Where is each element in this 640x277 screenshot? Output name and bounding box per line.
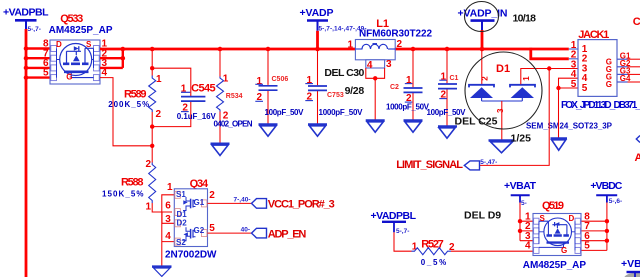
- resistor R527: [412, 239, 456, 267]
- wire JACK pin4 to ground: [559, 78, 579, 138]
- junction dots at x=122.8: [121, 47, 126, 52]
- power symbol +VADP_IN: [458, 7, 508, 30]
- svg-text:S: S: [86, 40, 92, 49]
- power symbol +VBAT: [504, 180, 537, 207]
- wire gate net down to R588: [151, 127, 153, 163]
- svg-text:Q533: Q533: [60, 13, 83, 25]
- wire G1: [617, 58, 628, 60]
- wire D1 anode to ground: [501, 101, 503, 140]
- D1 left half cathode wire to bus: [481, 49, 483, 84]
- JACK1 outside pin numbers: [571, 40, 577, 90]
- svg-text:R589: R589: [124, 88, 147, 100]
- partial off-page arrow at right edge: [636, 136, 640, 143]
- svg-text:10/18: 10/18: [513, 13, 537, 25]
- svg-text:100pF_50V: 100pF_50V: [265, 108, 305, 117]
- svg-text:A: A: [635, 152, 640, 164]
- annotation circle around D1: [465, 52, 542, 129]
- D1 left diode: [469, 85, 494, 88]
- power symbol +VBDC: [590, 180, 622, 205]
- power symbol +VADPBL: [3, 6, 49, 33]
- svg-text:1: 1: [306, 75, 312, 86]
- svg-text:5: 5: [43, 68, 49, 79]
- svg-text:1: 1: [406, 75, 412, 86]
- transistor Q34 2N7002DW: [165, 178, 217, 261]
- D1 anode join: [482, 98, 523, 101]
- svg-text:4: 4: [102, 68, 108, 79]
- wire rail to C545 top: [152, 68, 191, 96]
- svg-text:R534: R534: [226, 93, 243, 100]
- wire L1 pins 3,4 to ground: [366, 68, 385, 120]
- svg-text:2: 2: [156, 109, 162, 120]
- junction dots on +VADPBL bus: [24, 46, 29, 80]
- svg-text:150K_5%: 150K_5%: [102, 190, 144, 199]
- svg-text:R588: R588: [121, 177, 144, 189]
- svg-text:S1: S1: [176, 190, 186, 199]
- svg-text:D1: D1: [496, 63, 510, 75]
- wire R589 bottom / C545 bottom join: [152, 101, 191, 126]
- wire +VADPBL vertical bus: [25, 29, 28, 277]
- svg-text:C: C: [633, 16, 640, 28]
- svg-text:Q34: Q34: [190, 178, 209, 190]
- svg-text:2: 2: [481, 76, 490, 81]
- Q519 pin numbers: [525, 211, 531, 251]
- Q34 internal mosfet marks: [183, 197, 196, 241]
- svg-text:G4: G4: [620, 74, 631, 83]
- svg-text:S: S: [540, 214, 546, 223]
- wire Q533 pin4 gate net: [100, 78, 152, 146]
- wire Q533 pin6: [26, 67, 50, 69]
- node R589 top dot: [150, 47, 155, 52]
- wire Q533 pin7: [26, 57, 50, 59]
- svg-text:4: 4: [367, 60, 373, 71]
- diode D1 SEM_SM24: [469, 49, 613, 153]
- Q34 pin tabs: [175, 191, 207, 245]
- svg-text:AM4825P_AP: AM4825P_AP: [49, 25, 113, 36]
- wire +VADPBL to R527: [394, 232, 412, 251]
- capacitor C506: [255, 47, 304, 137]
- svg-text:3: 3: [496, 108, 505, 113]
- svg-text:+VADP: +VADP: [300, 7, 334, 19]
- ground below Q34: [152, 267, 172, 277]
- svg-text:D1: D1: [177, 210, 188, 219]
- svg-text:1: 1: [347, 40, 353, 51]
- inductor filter L1 NFM60R30T222: [347, 18, 432, 132]
- svg-text:6: 6: [165, 201, 171, 212]
- JACK1 inside G pads: [606, 57, 612, 89]
- svg-text:5: 5: [571, 79, 577, 90]
- wire Q533 pin5: [26, 76, 50, 78]
- wire D1 right cathode to JACK pin3 net: [521, 69, 578, 85]
- svg-text:1: 1: [167, 182, 173, 193]
- svg-text:+VBAT: +VBAT: [504, 180, 537, 192]
- svg-text:1: 1: [522, 76, 531, 81]
- svg-text:5: 5: [209, 223, 215, 234]
- power symbol +VADP: [300, 7, 367, 33]
- ground below C2: [404, 119, 423, 121]
- svg-text:C753: C753: [327, 92, 344, 99]
- svg-text:200K_5%: 200K_5%: [108, 100, 149, 109]
- ground below JACK pins 4,5: [551, 137, 568, 139]
- svg-text:4: 4: [525, 241, 531, 252]
- Q533 pin tabs: [51, 46, 99, 81]
- svg-text:LIMIT_SIGNAL: LIMIT_SIGNAL: [396, 159, 463, 171]
- wire Q34 G1 to off-page: [208, 202, 252, 204]
- node labels G1-G4: [620, 51, 631, 83]
- svg-text:VCC1_POR#_3: VCC1_POR#_3: [268, 199, 335, 211]
- ground below C753: [308, 123, 327, 125]
- wire R527 to Q519 gate pin4: [451, 250, 533, 252]
- wire JACK pin1 stub: [569, 48, 578, 50]
- ground below R534: [211, 142, 230, 144]
- wire Q533 pin8: [26, 47, 50, 49]
- connector JACK1: [561, 29, 640, 111]
- svg-text:2: 2: [145, 159, 151, 170]
- ground below C506: [259, 123, 278, 125]
- svg-text:40-: 40-: [241, 226, 250, 233]
- resistor R534: [211, 47, 253, 156]
- svg-text:0402_OPEN: 0402_OPEN: [214, 119, 253, 128]
- svg-text:2: 2: [397, 39, 403, 50]
- svg-text:AM4825P_AP: AM4825P_AP: [523, 260, 587, 271]
- svg-text:4: 4: [165, 231, 171, 242]
- Q519 internal symbol: [539, 218, 575, 250]
- svg-text:3: 3: [165, 214, 171, 225]
- wire Q34 G2 to off-page: [208, 232, 252, 234]
- svg-text:9/28: 9/28: [345, 85, 365, 97]
- transistor Q533 AM4825P_AP: [43, 13, 113, 84]
- Q533 pin numbers: [43, 39, 49, 79]
- svg-text:1: 1: [156, 74, 162, 85]
- wire G2: [617, 66, 628, 68]
- capacitor C2: [386, 47, 430, 133]
- wire bus to R589 top: [151, 49, 153, 76]
- D1 right diode: [510, 85, 535, 88]
- svg-text:DEL C30: DEL C30: [324, 67, 364, 79]
- ground below L1: [366, 119, 385, 121]
- svg-text:+VADPBL: +VADPBL: [371, 210, 417, 222]
- svg-text:Q519: Q519: [542, 200, 564, 212]
- resistor R589: [108, 74, 162, 120]
- svg-text:2N7002DW: 2N7002DW: [165, 249, 217, 260]
- wire JACK pin2 stub: [569, 58, 578, 60]
- svg-text:1: 1: [223, 74, 229, 85]
- svg-text:D: D: [56, 40, 62, 49]
- wire LIMIT_SIGNAL: [480, 69, 549, 166]
- Q533 internal symbol: [57, 44, 94, 78]
- ground below C1: [438, 125, 457, 127]
- wire +VADP drop to bus: [316, 31, 319, 49]
- gray markup blob bottom right: [624, 273, 640, 277]
- svg-text:G: G: [66, 73, 72, 82]
- svg-text:+VADPBL: +VADPBL: [3, 6, 49, 18]
- node gate junction dot: [150, 144, 154, 148]
- svg-text:C1: C1: [450, 75, 459, 82]
- svg-text:5-,6-: 5-,6-: [609, 198, 622, 205]
- svg-text:FOX_JPD113D_DB371_: FOX_JPD113D_DB371_: [561, 100, 640, 111]
- ground below D1: [489, 139, 515, 141]
- annotation circle around +VADP_IN: [465, 2, 499, 32]
- svg-text:G: G: [561, 246, 567, 255]
- capacitor C545: [177, 82, 217, 121]
- capacitor C753: [305, 49, 363, 136]
- transistor Q519 AM4825P_AP: [523, 200, 591, 271]
- svg-text:1: 1: [440, 72, 446, 83]
- svg-text:+VBA: +VBA: [621, 258, 640, 270]
- svg-text:3: 3: [386, 59, 392, 70]
- svg-text:1: 1: [145, 202, 151, 213]
- wire R588 to Q34 D1/D2: [152, 203, 174, 223]
- svg-text:G: G: [606, 80, 612, 89]
- wire +VBAT to Q519 pins 1,2,3: [520, 203, 533, 241]
- svg-text:5-,7-: 5-,7-: [396, 228, 409, 235]
- svg-text:5-: 5-: [521, 200, 527, 207]
- svg-text:G1: G1: [194, 198, 205, 207]
- svg-text:DEL D9: DEL D9: [464, 210, 501, 222]
- JACK1 inside pin names: [582, 44, 588, 94]
- svg-text:5: 5: [582, 83, 588, 94]
- svg-text:7-,40-: 7-,40-: [234, 197, 251, 204]
- svg-text:C2: C2: [390, 84, 399, 91]
- svg-text:ADP_EN: ADP_EN: [268, 229, 307, 241]
- wire Q533 pin2 to bus: [100, 49, 123, 58]
- capacitor C1: [427, 47, 467, 139]
- wire +VBDC to Q519 pins 5,6,7,8: [581, 203, 607, 251]
- svg-text:0.1uF_16V: 0.1uF_16V: [177, 112, 217, 121]
- svg-text:5-,7-: 5-,7-: [28, 26, 41, 33]
- wire main +VADP bus: [100, 48, 569, 51]
- Q519 pin tabs: [534, 218, 581, 253]
- svg-text:1/25: 1/25: [511, 133, 532, 145]
- wire +VADP_IN drop to bus: [481, 30, 484, 49]
- svg-text:SEM_SM24_SOT23_3P: SEM_SM24_SOT23_3P: [526, 122, 613, 131]
- svg-text:+VBDC: +VBDC: [590, 180, 622, 192]
- svg-text:NFM60R30T222: NFM60R30T222: [359, 29, 432, 40]
- svg-text:C506: C506: [272, 76, 289, 83]
- svg-text:D2: D2: [177, 219, 188, 228]
- wire G4: [617, 81, 628, 83]
- svg-text:0_5%: 0_5%: [421, 258, 447, 267]
- svg-text:2: 2: [209, 190, 215, 201]
- svg-text:S2: S2: [176, 238, 186, 247]
- power symbol +VADPBL (bottom): [371, 210, 417, 235]
- wire Q34 S1 S2 to ground: [162, 195, 175, 267]
- svg-text:1000pF_50V: 1000pF_50V: [386, 102, 430, 111]
- svg-text:5: 5: [584, 241, 590, 252]
- svg-text:D: D: [569, 214, 575, 223]
- svg-text:C545: C545: [191, 82, 216, 94]
- resistor R588: [102, 159, 156, 213]
- svg-text:1000pF_50V: 1000pF_50V: [319, 108, 364, 117]
- partial power symbol +VB at bottom right: [621, 258, 640, 277]
- svg-text:5-,47-: 5-,47-: [480, 159, 497, 166]
- wire G3: [617, 73, 628, 75]
- wire Q533 pin3 to bus: [100, 58, 123, 68]
- wire thick bus branch to JACK pin2: [529, 48, 568, 59]
